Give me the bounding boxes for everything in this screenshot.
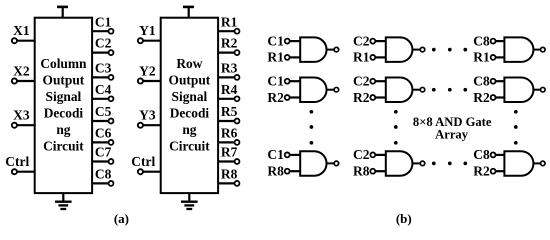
AND gate U5 (inputs C8,R1) (504, 37, 533, 62)
continuation dots (row 3) (432, 162, 467, 166)
input R1 of U4 (353, 50, 386, 65)
svg-text:R5: R5 (221, 104, 238, 119)
continuation dots (column 3) (514, 110, 518, 145)
decoder block U1 (35, 18, 92, 193)
svg-text:C8: C8 (95, 167, 112, 182)
input terminal X3 (column decoder) (12, 108, 35, 128)
input terminal X1 (column decoder) (12, 23, 35, 43)
svg-text:R7: R7 (221, 145, 238, 160)
svg-text:R8: R8 (267, 164, 284, 179)
svg-text:R1: R1 (473, 50, 490, 65)
svg-text:R3: R3 (221, 61, 238, 76)
svg-text:R2: R2 (473, 90, 490, 105)
input C8 of U8 (473, 74, 504, 89)
svg-text:X1: X1 (13, 23, 30, 38)
output terminal of U8 (533, 87, 545, 92)
input terminal Ctrl (column decoder) (5, 154, 34, 174)
continuation dots (row 2) (432, 88, 467, 92)
svg-text:R2: R2 (267, 90, 284, 105)
power VDD (row decoder) (183, 7, 194, 18)
svg-text:(a): (a) (114, 211, 129, 226)
output terminal of U5 (533, 47, 545, 52)
svg-text:(b): (b) (396, 211, 412, 226)
output terminal C6 (92, 126, 113, 145)
input C1 of U6 (267, 74, 300, 89)
svg-text:Y1: Y1 (139, 23, 156, 38)
svg-text:C2: C2 (353, 147, 370, 162)
svg-text:C1: C1 (95, 14, 112, 29)
output terminal of U4 (413, 47, 425, 52)
input terminal X2 (column decoder) (12, 63, 35, 83)
input C8 of U11 (473, 147, 504, 162)
input R2 of U7 (353, 90, 386, 105)
svg-text:C8: C8 (473, 147, 490, 162)
continuation dots (column 1) (310, 110, 314, 145)
input terminal Y3 (row decoder) (138, 108, 161, 128)
svg-text:R2: R2 (353, 90, 370, 105)
output terminal R6 (218, 126, 239, 145)
output terminal R5 (218, 104, 239, 123)
svg-text:R1: R1 (267, 50, 284, 65)
continuation dots (row 1) (432, 48, 467, 52)
output terminal of U6 (327, 87, 339, 92)
decoder block U2 (161, 18, 218, 193)
svg-text:8×8 AND GateArray: 8×8 AND GateArray (413, 115, 492, 142)
svg-text:R2: R2 (473, 164, 490, 179)
input R8 of U10 (353, 164, 386, 179)
svg-text:C8: C8 (473, 74, 490, 89)
output terminal of U11 (533, 161, 545, 166)
output terminal R8 (218, 167, 239, 186)
input C2 of U4 (353, 33, 386, 48)
input terminal Y1 (row decoder) (138, 23, 161, 43)
svg-text:Ctrl: Ctrl (131, 154, 155, 169)
svg-text:Y2: Y2 (139, 63, 156, 78)
svg-text:C2: C2 (353, 33, 370, 48)
svg-text:C2: C2 (353, 74, 370, 89)
output terminal R1 (218, 14, 239, 33)
svg-text:ColumnOutputSignalDecodingCirc: ColumnOutputSignalDecodingCircuit (40, 56, 87, 154)
output terminal C8 (92, 167, 113, 186)
svg-text:Y3: Y3 (139, 108, 156, 123)
output terminal R7 (218, 145, 239, 164)
input R1 of U3 (267, 50, 300, 65)
svg-text:C3: C3 (95, 61, 112, 76)
output terminal of U10 (413, 161, 425, 166)
svg-text:R8: R8 (221, 167, 238, 182)
output terminal C4 (92, 82, 113, 101)
AND gate U4 (inputs C2,R1) (386, 37, 413, 62)
input C2 of U10 (353, 147, 386, 162)
AND gate U10 (inputs C2,R8) (386, 151, 413, 176)
svg-text:C1: C1 (267, 33, 284, 48)
svg-text:X2: X2 (13, 63, 30, 78)
ground (column decoder) (55, 193, 72, 209)
ground (row decoder) (181, 193, 198, 209)
svg-text:C5: C5 (95, 104, 112, 119)
svg-text:R6: R6 (221, 126, 238, 141)
output terminal of U3 (327, 47, 339, 52)
AND gate U9 (inputs C1,R8) (300, 151, 326, 176)
output terminal C3 (92, 61, 113, 80)
AND gate U3 (inputs C1,R1) (300, 37, 326, 62)
svg-text:C6: C6 (95, 126, 112, 141)
svg-text:Ctrl: Ctrl (5, 154, 29, 169)
svg-text:RowOutputSignalDecodingCircuit: RowOutputSignalDecodingCircuit (169, 56, 211, 154)
output terminal C2 (92, 36, 113, 55)
AND gate U6 (inputs C1,R2) (300, 78, 326, 103)
power VDD (column decoder) (57, 7, 68, 18)
input R8 of U9 (267, 164, 300, 179)
svg-text:R4: R4 (221, 82, 238, 97)
input R2 of U8 (473, 90, 504, 105)
svg-text:R1: R1 (221, 14, 238, 29)
svg-text:C1: C1 (267, 74, 284, 89)
input C1 of U9 (267, 147, 300, 162)
svg-text:C8: C8 (473, 33, 490, 48)
svg-text:C7: C7 (95, 145, 112, 160)
AND gate U8 (inputs C8,R2) (504, 78, 533, 103)
svg-text:R8: R8 (353, 164, 370, 179)
output terminal C1 (92, 14, 113, 33)
svg-text:C2: C2 (95, 36, 112, 51)
AND gate U7 (inputs C2,R2) (386, 78, 413, 103)
output terminal C7 (92, 145, 113, 164)
input C1 of U3 (267, 33, 300, 48)
svg-text:R2: R2 (221, 36, 238, 51)
continuation dots (column 2) (394, 110, 398, 145)
output terminal R2 (218, 36, 239, 55)
output terminal of U7 (413, 87, 425, 92)
input C8 of U5 (473, 33, 504, 48)
svg-text:C4: C4 (95, 82, 112, 97)
input terminal Ctrl (row decoder) (131, 154, 160, 174)
output terminal R3 (218, 61, 239, 80)
svg-text:R1: R1 (353, 50, 370, 65)
svg-text:X3: X3 (13, 108, 30, 123)
input R2 of U6 (267, 90, 300, 105)
AND gate U11 (inputs C8,R2) (504, 151, 533, 176)
input R2 of U11 (473, 164, 504, 179)
input R1 of U5 (473, 50, 504, 65)
output terminal C5 (92, 104, 113, 123)
input terminal Y2 (row decoder) (138, 63, 161, 83)
output terminal R4 (218, 82, 239, 101)
output terminal of U9 (327, 161, 339, 166)
input C2 of U7 (353, 74, 386, 89)
svg-text:C1: C1 (267, 147, 284, 162)
